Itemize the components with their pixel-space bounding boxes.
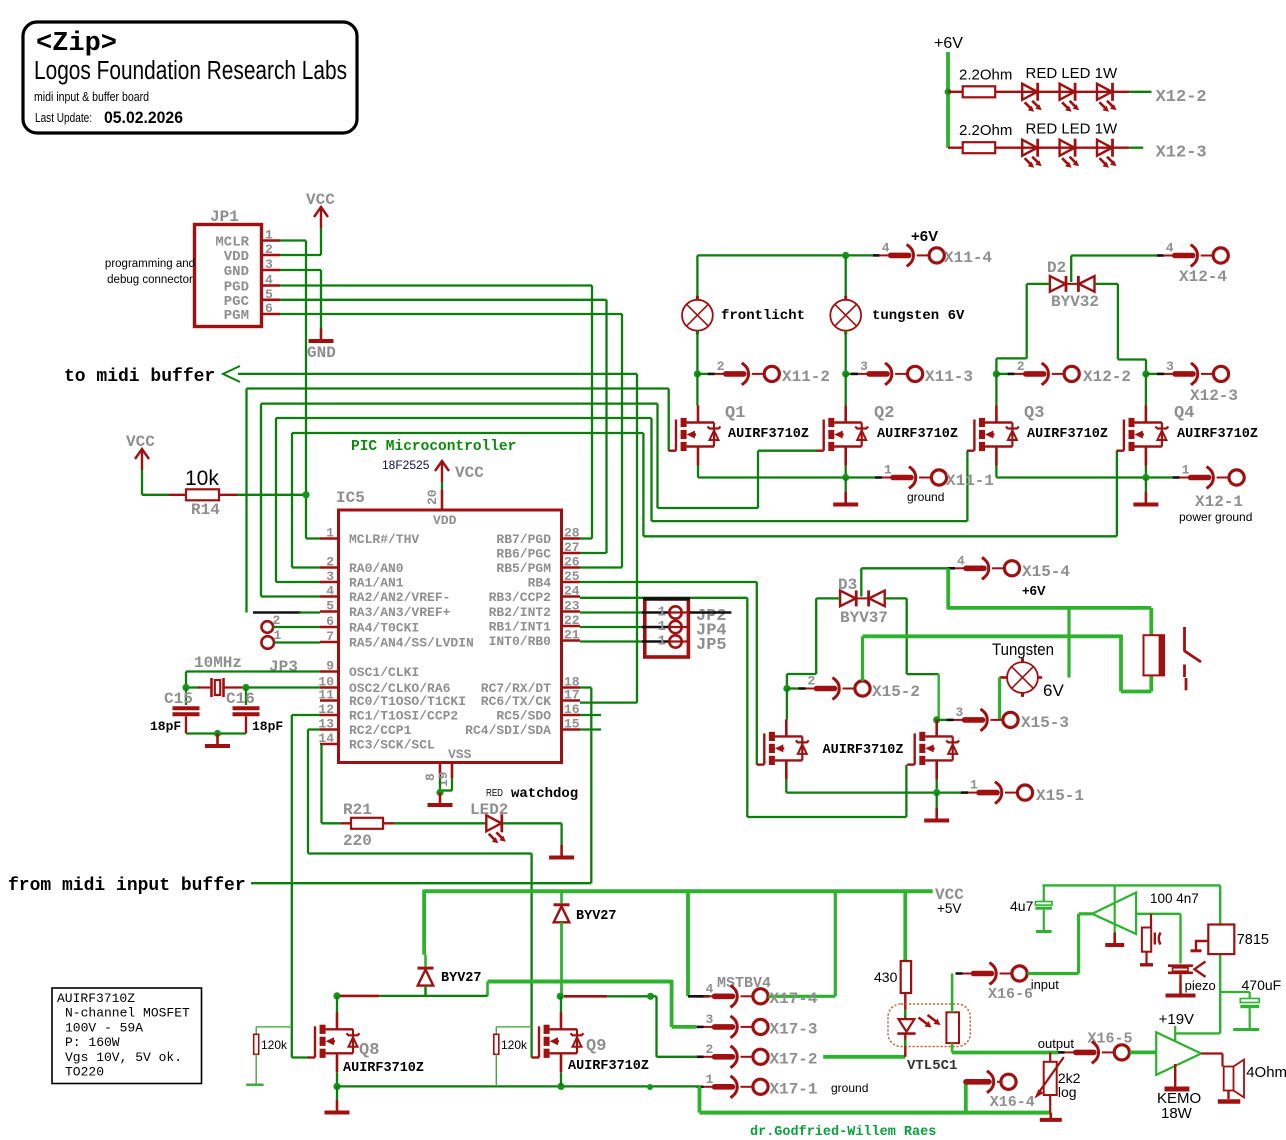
junction Q4 source — [1142, 474, 1149, 481]
svg-text:RC2/CCP1: RC2/CCP1 — [349, 723, 412, 738]
jumper JP2 — [580, 611, 643, 613]
svg-text:AUIRF3710Z: AUIRF3710Z — [1027, 427, 1108, 442]
svg-text:from midi input buffer: from midi input buffer — [8, 876, 246, 896]
connector X11-1 — [875, 467, 947, 489]
svg-text:27: 27 — [564, 540, 580, 555]
wire PGD net JP1 pin4 to PIC pin28 — [280, 284, 592, 286]
wire X12 ground row — [995, 466, 997, 478]
connector JP1 box — [195, 225, 262, 327]
svg-text:21: 21 — [564, 628, 580, 643]
resistor 100 with capacitor 4n7 — [1150, 914, 1152, 928]
wire Q9 drain net — [557, 993, 564, 1000]
svg-text:2: 2 — [273, 613, 281, 628]
optocoupler LED — [899, 1019, 915, 1032]
svg-text:RA0/AN0: RA0/AN0 — [349, 561, 404, 576]
PIC pin 9 OSC1/CLKI — [320, 670, 339, 673]
svg-text:C15: C15 — [164, 690, 193, 708]
wire net RA2 to Q2 gate — [261, 402, 658, 404]
svg-text:4: 4 — [1166, 241, 1174, 256]
ground symbol under X15 mosfet — [936, 793, 938, 808]
svg-text:3: 3 — [326, 569, 334, 584]
transistor Q4 — [1145, 374, 1147, 406]
svg-text:28: 28 — [564, 526, 580, 541]
svg-text:output: output — [1038, 1036, 1075, 1051]
JP1 pin 6 PGM — [263, 313, 280, 316]
PIC pin 18 RC7/RX/DT — [562, 686, 581, 689]
switch contact — [1184, 627, 1201, 690]
wire RB4 net to X15 left gate — [580, 581, 757, 583]
junction MCLR R14 — [302, 491, 309, 498]
PIC pin 21 INT0/RB0 — [562, 639, 581, 642]
LED 1 row 2 — [1022, 139, 1041, 168]
svg-text:20: 20 — [425, 489, 440, 505]
svg-text:18pF: 18pF — [150, 719, 181, 734]
diode BYV27 left — [418, 968, 434, 986]
resistor 120k Q8 — [256, 1026, 292, 1028]
connector X16-6 — [956, 963, 1028, 985]
PIC pin 24 RB3/CCP2 — [562, 595, 581, 598]
svg-text:VTL5C1: VTL5C1 — [907, 1058, 957, 1074]
ground symbol under Q4 — [1145, 478, 1147, 493]
ground symbol under PIC — [428, 793, 453, 806]
svg-text:Q3: Q3 — [1024, 404, 1044, 423]
resistor R14 10k — [169, 494, 186, 496]
wire thick VCC rail — [424, 889, 933, 893]
svg-text:X11-3: X11-3 — [925, 368, 973, 386]
JP3 pin circle 1 — [261, 636, 274, 649]
speaker 4Ohm — [1201, 1052, 1222, 1054]
svg-text:6: 6 — [265, 301, 273, 316]
svg-text:RB2/INT2: RB2/INT2 — [489, 605, 552, 620]
jumper JP4 — [580, 626, 643, 628]
svg-text:X17-4: X17-4 — [770, 990, 818, 1008]
svg-text:X17-1: X17-1 — [770, 1080, 818, 1098]
wire rail to X17-1 and bottom rail — [697, 1085, 700, 1087]
svg-text:19: 19 — [436, 771, 451, 787]
wire X16-5 to KEMO amp — [1130, 1051, 1156, 1055]
ground symbol under Q8 — [336, 1086, 338, 1100]
svg-text:RA4/T0CKI: RA4/T0CKI — [349, 621, 419, 636]
svg-text:13: 13 — [318, 717, 334, 732]
svg-text:AUIRF3710Z: AUIRF3710Z — [343, 1061, 424, 1076]
svg-text:OSC1/CLKI: OSC1/CLKI — [349, 665, 419, 680]
wire amp1 input from piezo — [1136, 913, 1180, 915]
svg-text:VSS: VSS — [448, 747, 472, 762]
svg-text:RA5/AN4/SS/LVDIN: RA5/AN4/SS/LVDIN — [349, 636, 474, 651]
connector X15-4 — [948, 557, 1020, 579]
wire thick rail drop to BYV27 left — [422, 890, 426, 955]
wire Q9 drain riser to X17-2 — [655, 996, 657, 1057]
wire RX net PIC pin18 to midi input — [580, 686, 591, 688]
optocoupler LED lead green segments — [904, 1010, 906, 1018]
svg-text:2: 2 — [717, 359, 725, 374]
PIC pin 17 RC6/TX/CK — [562, 699, 581, 702]
svg-text:X11-4: X11-4 — [944, 249, 992, 267]
svg-text:Q4: Q4 — [1174, 404, 1194, 423]
connector X11-4 — [873, 244, 945, 266]
connector X12-2 — [996, 373, 1009, 375]
svg-text:midi input & buffer board: midi input & buffer board — [34, 89, 149, 104]
wire D3 right leg to X15-3 — [885, 597, 907, 599]
wire JP1 pin2 VDD to VCC — [280, 254, 321, 256]
ground symbol below JP1 — [309, 329, 334, 342]
svg-text:N-channel MOSFET: N-channel MOSFET — [65, 1006, 190, 1021]
svg-text:2.2Ohm: 2.2Ohm — [959, 122, 1012, 139]
connector X12-1 — [1173, 467, 1245, 489]
wire to X12-2 — [1129, 91, 1151, 93]
svg-text:22: 22 — [564, 613, 580, 628]
svg-text:23: 23 — [564, 599, 580, 614]
PIC pin 15 RC4/SDI/SDA — [562, 728, 581, 731]
PIC pin 28 RB7/PGD — [562, 537, 581, 540]
svg-text:18F2525: 18F2525 — [382, 458, 430, 472]
junction X15-3 — [933, 716, 940, 723]
wire R21 to LED2 — [394, 822, 486, 824]
wire net RA3 to Q1 gate — [247, 387, 669, 389]
svg-text:2: 2 — [706, 1042, 714, 1057]
svg-text:Q1: Q1 — [725, 404, 745, 423]
svg-text:MCLR#/THV: MCLR#/THV — [349, 532, 419, 547]
svg-text:05.02.2026: 05.02.2026 — [104, 108, 183, 127]
svg-text:RC0/T1OSO/T1CKI: RC0/T1OSO/T1CKI — [349, 694, 466, 709]
JP3 pin circle 2 — [262, 621, 274, 633]
connector X12-3 — [1146, 373, 1159, 375]
PIC pin 22 RB1/INT1 — [562, 625, 581, 628]
svg-text:4: 4 — [265, 273, 273, 288]
svg-text:4u7: 4u7 — [1010, 898, 1034, 914]
PIC pin 1 MCLR#/THV — [320, 537, 339, 540]
svg-text:26: 26 — [564, 555, 580, 570]
svg-text:X12-2: X12-2 — [1156, 88, 1207, 107]
svg-text:RC4/SDI/SDA: RC4/SDI/SDA — [465, 723, 551, 738]
svg-text:1: 1 — [1182, 463, 1190, 478]
PIC pin 6 RA4/T0CKI — [320, 626, 339, 629]
wire TX net down to PIC pin17 — [636, 374, 638, 703]
svg-text:X15-2: X15-2 — [872, 683, 920, 701]
svg-text:RED: RED — [486, 787, 503, 799]
svg-text:tungsten 6V: tungsten 6V — [872, 308, 965, 324]
svg-text:JP5: JP5 — [696, 636, 727, 655]
svg-text:VCC: VCC — [455, 464, 484, 482]
svg-text:1: 1 — [884, 463, 892, 478]
wire photoresistor bottom to output — [951, 1043, 954, 1052]
svg-text:Q9: Q9 — [586, 1037, 606, 1056]
wire X16-6 to amp1 output — [1028, 972, 1079, 975]
svg-text:RB7/PGD: RB7/PGD — [496, 532, 551, 547]
svg-text:TO220: TO220 — [65, 1065, 104, 1080]
wire D2 right leg — [1095, 283, 1118, 285]
svg-text:18W: 18W — [1161, 1105, 1193, 1122]
svg-text:D2: D2 — [1047, 259, 1066, 277]
svg-text:ground: ground — [907, 490, 944, 504]
PIC pin 13 RC2/CCP1 — [320, 728, 339, 731]
wire X15 source row — [785, 779, 787, 792]
wire led chain row 2 — [995, 146, 1129, 148]
JP1 pin 5 PGC — [263, 298, 280, 301]
ground symbol at pot — [1050, 1113, 1053, 1118]
junction X12-3 — [1142, 370, 1149, 377]
connector X17-2 — [697, 1046, 769, 1068]
svg-text:18pF: 18pF — [252, 719, 283, 734]
svg-text:BYV32: BYV32 — [1051, 293, 1099, 311]
svg-text:12: 12 — [318, 702, 334, 717]
wire net RA1 to Q3 gate — [276, 417, 652, 419]
svg-text:470uF: 470uF — [1242, 977, 1282, 993]
PIC pin 7 RA5/AN4/SS/LVDIN — [320, 641, 339, 644]
PIC pin 5 RA3/AN3/VREF+ — [320, 610, 339, 613]
wire JP2 stub black — [690, 611, 732, 614]
svg-text:4: 4 — [326, 584, 334, 599]
wire caps to ground — [186, 732, 246, 734]
connector X17-3 — [697, 1016, 769, 1038]
svg-text:P: 160W: P: 160W — [65, 1035, 120, 1050]
svg-text:GND: GND — [224, 264, 249, 280]
svg-text:VDD: VDD — [224, 249, 249, 265]
wire +19V vertical — [1219, 885, 1221, 1033]
optocoupler light arrows — [919, 1018, 929, 1026]
svg-text:4: 4 — [706, 981, 714, 996]
junction X12-2 — [993, 370, 1000, 377]
lamp tungsten 6V — [845, 255, 847, 300]
svg-text:10MHz: 10MHz — [194, 654, 242, 672]
svg-text:+6V: +6V — [1022, 583, 1046, 598]
svg-text:3: 3 — [956, 705, 964, 720]
wire RC5 stub — [580, 714, 601, 716]
wire BYV27 right anode to Q9 drain — [560, 922, 563, 996]
svg-text:2: 2 — [808, 674, 816, 689]
PIC pin20 stub — [441, 490, 444, 510]
op-amp preamp — [1092, 893, 1136, 935]
PIC pin 27 RB6/PGC — [562, 552, 581, 555]
svg-text:100V - 59A: 100V - 59A — [65, 1020, 143, 1035]
svg-text:2: 2 — [1017, 359, 1025, 374]
transistor Q9 — [532, 1012, 584, 1072]
wire to midi buffer with arrow — [238, 373, 637, 375]
JP1 pin 4 PGD — [263, 284, 280, 287]
LED 1 row 1 — [1022, 83, 1041, 112]
svg-text:log: log — [1058, 1084, 1077, 1100]
wire D2 left leg — [1027, 283, 1050, 285]
wire X12-4 net — [1071, 254, 1157, 256]
svg-text:10k: 10k — [185, 467, 219, 490]
PIC pin 4 RA2/AN2/VREF- — [320, 595, 339, 598]
svg-text:PGM: PGM — [224, 308, 249, 324]
wire JP1 pin3 GND down — [280, 269, 321, 271]
svg-text:RA1/AN1: RA1/AN1 — [349, 576, 404, 591]
svg-text:25: 25 — [564, 569, 580, 584]
svg-text:AUIRF3710Z: AUIRF3710Z — [823, 743, 904, 758]
wire Q9 source to rail — [560, 1072, 562, 1086]
svg-text:7815: 7815 — [1237, 932, 1269, 948]
svg-text:RA3/AN3/VREF+: RA3/AN3/VREF+ — [349, 605, 451, 620]
svg-text:X11-2: X11-2 — [782, 368, 830, 386]
svg-text:RC1/T1OSI/CCP2: RC1/T1OSI/CCP2 — [349, 709, 458, 724]
wire thick rail drop to BYV27 right — [560, 891, 563, 903]
connector X15-3 — [937, 719, 947, 721]
svg-text:BYV27: BYV27 — [441, 971, 482, 986]
wire led chain row 1 — [995, 91, 1129, 93]
wire RC1 net PIC pin13 to Q9 gate — [308, 728, 320, 730]
wire lamp right to +6V — [1038, 676, 1042, 679]
LED LED2 red watchdog — [486, 814, 506, 843]
capacitor C16 18pF — [245, 688, 247, 706]
junction X11-4 — [842, 252, 849, 259]
svg-text:6V: 6V — [1043, 681, 1064, 700]
PIC pin 10 OSC2/CLKO/RA6 — [320, 686, 339, 689]
svg-text:JP3: JP3 — [269, 658, 298, 676]
junction X11-2 — [694, 370, 701, 377]
svg-text:9: 9 — [326, 659, 334, 674]
PIC pins 8 19 VSS stubs — [439, 763, 442, 779]
wire net RA0 to Q4 gate — [292, 432, 643, 434]
svg-text:11: 11 — [318, 688, 334, 703]
svg-text:2: 2 — [326, 555, 334, 570]
junction X12-2 branch — [945, 88, 952, 95]
ground symbol under KEMO — [1174, 1064, 1176, 1087]
svg-text:X15-1: X15-1 — [1036, 787, 1084, 805]
IC5 PIC box — [339, 510, 562, 763]
svg-text:piezo: piezo — [1185, 978, 1216, 993]
svg-text:X17-3: X17-3 — [770, 1020, 818, 1038]
svg-text:120k: 120k — [501, 1038, 528, 1052]
transistor Q3 — [995, 374, 997, 406]
wire RC4 stub — [580, 728, 601, 730]
svg-text:2.2Ohm: 2.2Ohm — [959, 66, 1012, 83]
svg-text:+6V: +6V — [934, 35, 963, 52]
wire +19V top rail — [1043, 884, 1221, 886]
wire thick drop to X17-3 — [670, 980, 674, 1027]
junction X11-3 — [842, 370, 849, 377]
svg-text:X15-3: X15-3 — [1021, 714, 1069, 732]
svg-text:RB1/INT1: RB1/INT1 — [489, 620, 552, 635]
junction X15-1 — [933, 789, 940, 796]
junction X15-2 — [783, 685, 790, 692]
resistor 2.2Ohm row 2 — [948, 146, 963, 148]
wire thick mid rail — [488, 980, 672, 984]
svg-text:debug connector: debug connector — [107, 274, 193, 286]
svg-text:RA2/AN2/VREF-: RA2/AN2/VREF- — [349, 590, 450, 605]
connector X11-2 — [697, 373, 710, 375]
junction crystal right — [242, 684, 249, 691]
svg-text:2: 2 — [265, 242, 273, 257]
connector X15-1 — [961, 782, 1033, 804]
transistor X15 right mosfet — [907, 719, 959, 779]
svg-text:VCC: VCC — [126, 433, 155, 451]
wire thick X15-2 branch — [861, 636, 864, 681]
LED 3 row 2 — [1097, 139, 1117, 168]
svg-text:120k: 120k — [261, 1038, 288, 1052]
svg-text:17: 17 — [564, 688, 580, 703]
wire crystal right to OSC2 — [246, 686, 320, 688]
svg-text:Q2: Q2 — [874, 404, 894, 423]
JP1 pin 3 GND — [263, 269, 280, 272]
svg-text:+6V: +6V — [911, 228, 938, 245]
PIC pin 25 RB4 — [562, 581, 581, 584]
svg-text:3: 3 — [1166, 359, 1174, 374]
svg-text:Last Update:: Last Update: — [35, 111, 92, 125]
wire MCLR net JP1 pin1 to PIC pin1 — [280, 239, 306, 241]
info box AUIRF3710Z — [52, 988, 202, 1084]
svg-text:BYV27: BYV27 — [576, 909, 617, 924]
svg-text:3: 3 — [265, 257, 273, 272]
svg-text:3: 3 — [860, 359, 868, 374]
connector X17-4 — [697, 985, 769, 1007]
wire VSS to ground — [439, 778, 441, 793]
resistor R21 220 — [341, 822, 351, 824]
optocoupler VTL5C1 box — [888, 1004, 970, 1047]
jumper JP5 — [580, 640, 643, 642]
wire RB3 net to X15 right gate — [580, 597, 747, 599]
transistor X15 left mosfet — [786, 689, 788, 720]
svg-text:RC3/SCK/SCL: RC3/SCK/SCL — [349, 738, 435, 753]
resistor 2.2Ohm row 1 — [948, 91, 963, 93]
transistor Q8 — [308, 1012, 360, 1072]
svg-text:GND: GND — [307, 344, 336, 362]
junction crystal left — [182, 684, 189, 691]
wire RC2 net PIC pin12 to Q8 gate — [292, 714, 320, 716]
wire Q8 source to ground rail — [336, 1072, 338, 1086]
potentiometer 2k2 log — [1049, 1053, 1051, 1062]
lamp frontlicht — [696, 255, 698, 300]
X17 wires right side — [768, 995, 835, 998]
wire +19V to amp — [1174, 1026, 1176, 1041]
svg-text:RED LED 1W: RED LED 1W — [1026, 121, 1119, 138]
wire +6V vertical top right — [946, 52, 950, 148]
connector X11-3 — [846, 373, 853, 375]
op-amp KEMO 18W — [1156, 1032, 1201, 1075]
PIC pin 3 RA1/AN1 — [320, 581, 339, 584]
svg-text:AUIRF3710Z: AUIRF3710Z — [568, 1059, 649, 1074]
svg-text:Vgs 10V, 5V ok.: Vgs 10V, 5V ok. — [65, 1050, 182, 1065]
svg-text:input: input — [1031, 977, 1060, 992]
svg-text:1: 1 — [265, 228, 273, 243]
svg-text:X12-1: X12-1 — [1195, 493, 1243, 511]
svg-text:24: 24 — [564, 584, 580, 599]
crystal Q 10MHz — [186, 686, 200, 688]
PIC pin 23 RB2/INT2 — [562, 610, 581, 613]
PIC pin 2 RA0/AN0 — [320, 566, 339, 569]
LED 2 row 2 — [1060, 139, 1080, 168]
svg-text:6: 6 — [326, 614, 334, 629]
LED 3 row 1 — [1097, 83, 1117, 112]
svg-text:JP1: JP1 — [210, 208, 239, 226]
svg-text:430: 430 — [874, 969, 898, 985]
wire X11 ground row — [697, 466, 699, 478]
wire 430 to opto LED — [904, 993, 906, 1019]
svg-text:7: 7 — [326, 629, 334, 644]
svg-text:INT0/RB0: INT0/RB0 — [489, 634, 552, 649]
wire thick drop to X17-4 — [686, 890, 690, 997]
svg-text:3: 3 — [706, 1012, 714, 1027]
wire LED2 to ground — [503, 822, 562, 824]
wire thick to load resistor bottom — [1119, 635, 1123, 692]
svg-text:PIC Microcontroller: PIC Microcontroller — [351, 439, 516, 455]
svg-text:100 4n7: 100 4n7 — [1150, 891, 1199, 906]
wire PGM net JP1 pin6 to PIC pin26 — [280, 313, 622, 315]
svg-text:power ground: power ground — [1179, 510, 1252, 524]
svg-text:AUIRF3710Z: AUIRF3710Z — [877, 427, 958, 442]
wire RC3 net PIC pin14 to R21 — [320, 744, 322, 823]
svg-text:X17-2: X17-2 — [770, 1050, 818, 1068]
svg-text:frontlicht: frontlicht — [721, 308, 805, 324]
svg-text:+5V: +5V — [937, 901, 961, 916]
svg-text:X12-4: X12-4 — [1179, 268, 1227, 286]
diode BYV27 right — [554, 905, 570, 923]
LED 2 row 1 — [1060, 83, 1080, 112]
svg-text:to midi buffer: to midi buffer — [64, 367, 215, 387]
junction Q2 source — [842, 474, 849, 481]
svg-text:4: 4 — [957, 553, 965, 568]
